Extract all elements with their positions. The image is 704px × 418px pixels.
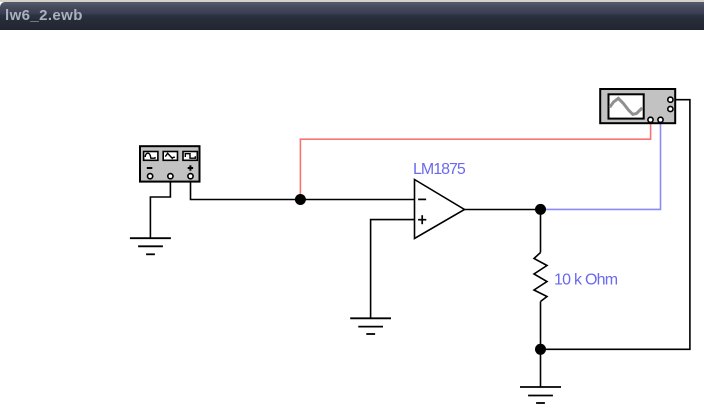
function generator terminal pin + — [188, 174, 193, 179]
oscilloscope terminal ground upper — [668, 97, 673, 102]
oscilloscope screen sine trace — [610, 98, 643, 114]
oscilloscope terminal channel A — [648, 117, 653, 122]
ground G2 (op-amp non-inverting input) — [350, 318, 391, 334]
op-amp U1 triangle — [415, 180, 465, 239]
wire: node C right and up to oscilloscope ground terminal — [541, 100, 690, 350]
wire (red): node A up to oscilloscope channel A input — [300, 123, 650, 200]
function generator minus label — [147, 167, 153, 169]
node B junction dot — [535, 204, 546, 215]
oscilloscope terminal ground lower — [668, 106, 673, 111]
wire (blue): oscilloscope channel B input down to node B — [541, 123, 661, 209]
wire: op-amp output to node B — [465, 209, 541, 211]
resistor R1 zigzag — [534, 253, 547, 302]
op-amp U1 inverting input marker — [418, 198, 426, 200]
function generator square button — [183, 152, 197, 161]
oscilloscope terminal channel B — [658, 117, 663, 122]
node C junction dot — [535, 344, 546, 355]
ground G3 (load resistor) — [520, 387, 561, 403]
oscilloscope XSC1 body — [600, 89, 675, 123]
function generator terminal pin COM — [168, 174, 173, 179]
oscilloscope screen — [609, 94, 644, 118]
op-amp U1 non-inverting input marker — [418, 215, 426, 224]
node A junction dot — [295, 194, 306, 205]
function generator sine button — [144, 152, 158, 161]
function generator plus label — [188, 165, 193, 170]
wire: function generator COM terminal to ground G1 — [150, 176, 170, 238]
ground G1 (function generator) — [130, 238, 171, 254]
wire: node B down to resistor R1 top lead — [540, 210, 542, 253]
function generator triangle button — [163, 152, 177, 161]
svg-text:LM1875: LM1875 — [413, 161, 466, 178]
wire: function generator + terminal to op-amp inverting input (net with node A) — [191, 176, 415, 200]
function generator terminal pin - — [148, 174, 153, 179]
wire: resistor R1 bottom lead to node C and ground G3 — [540, 302, 542, 388]
svg-text:10 k Ohm: 10 k Ohm — [554, 272, 618, 289]
wire: op-amp non-inverting input to ground G2 — [371, 220, 415, 318]
title bar — [0, 0, 704, 30]
function generator V1 body — [140, 146, 200, 181]
